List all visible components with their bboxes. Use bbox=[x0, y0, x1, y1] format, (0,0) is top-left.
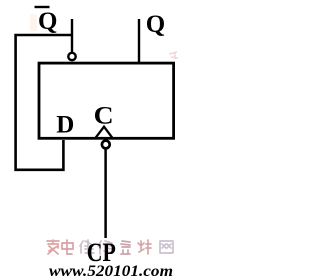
svg-text:Q: Q bbox=[146, 11, 165, 38]
wire Q-bar output (vertical) bbox=[71, 19, 73, 53]
dynamic clock input triangle bbox=[95, 127, 114, 139]
char dian bbox=[62, 240, 73, 254]
char wang bbox=[160, 241, 173, 253]
char zi bbox=[121, 241, 130, 254]
char jia bbox=[47, 240, 59, 254]
faint blue tint near C bbox=[100, 110, 108, 122]
svg-text:CP: CP bbox=[87, 238, 116, 267]
flip-flop body rectangle U1 bbox=[39, 63, 174, 138]
inversion bubble on Q-bar output bbox=[68, 53, 75, 60]
char wei bbox=[80, 240, 94, 254]
inversion bubble on clock input bbox=[102, 141, 110, 149]
label Q-bar overline bbox=[35, 6, 50, 8]
svg-text:Q: Q bbox=[38, 8, 57, 35]
svg-text:D: D bbox=[56, 112, 74, 139]
watermark line 1: 家电维修资料网 (painted strokes) bbox=[47, 240, 173, 254]
char liao bbox=[138, 240, 151, 254]
faint watermark remnant top-right bbox=[169, 52, 178, 59]
wire Q output (vertical) bbox=[138, 19, 140, 63]
wire feedback Q-bar to D (left loop) bbox=[16, 35, 72, 170]
wire CP (vertical) bbox=[104, 149, 107, 238]
faint peach tint near Q-bar bbox=[30, 14, 37, 31]
char xiu bbox=[98, 241, 112, 254]
